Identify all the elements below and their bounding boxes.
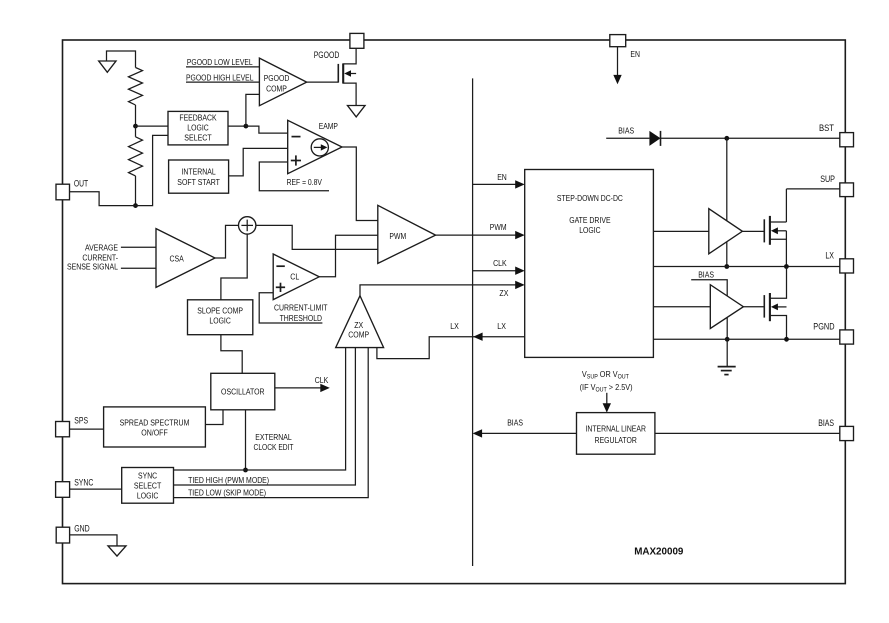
block FEEDBACK LOGIC SELECT — [168, 111, 228, 144]
label AVERAGE CURRENT- SENSE SIGNAL — [67, 243, 118, 272]
svg-text:BIAS: BIAS — [698, 270, 714, 280]
block STEP-DOWN DC-DC GATE DRIVE LOGIC — [525, 170, 654, 358]
svg-text:INTERNAL: INTERNAL — [182, 167, 216, 177]
wire ZX COMP output to gate drive logic — [360, 285, 516, 296]
wire CL output to PWM comparator — [319, 235, 378, 277]
port BST — [840, 133, 854, 147]
svg-text:ZX: ZX — [354, 320, 363, 330]
svg-text:THRESHOLD: THRESHOLD — [280, 313, 322, 323]
svg-text:OUT: OUT — [74, 179, 89, 189]
wire node OUT to FEEDBACK box lower input — [136, 135, 169, 205]
wire PGND rail — [653, 338, 839, 340]
node high driver LX — [724, 264, 729, 269]
summing junction — [239, 217, 256, 234]
port SYNC — [56, 482, 70, 498]
wire VSUP arrow into regulator — [606, 393, 608, 404]
node BST rail — [724, 136, 729, 141]
svg-text:REF = 0.8V: REF = 0.8V — [287, 177, 323, 187]
wire REF 0.8V to EAMP plus input — [259, 162, 329, 191]
svg-text:PGOOD: PGOOD — [264, 73, 290, 83]
svg-text:CLK: CLK — [493, 258, 507, 268]
block SPREAD SPECTRUM ON/OFF — [104, 407, 206, 447]
amplifier CSA — [156, 229, 215, 288]
svg-text:GND: GND — [74, 524, 90, 534]
transistor low-side MOSFET — [764, 267, 786, 340]
IC boundary box — [63, 40, 846, 584]
svg-text:SOFT START: SOFT START — [177, 177, 220, 187]
svg-text:LOGIC: LOGIC — [137, 491, 158, 501]
svg-text:BST: BST — [819, 123, 834, 133]
svg-text:LX: LX — [825, 250, 834, 260]
block OSCILLATOR — [211, 373, 275, 410]
wire node FB2 to PGOOD COMP input — [246, 94, 260, 126]
node PGND MOSFET source — [784, 337, 789, 342]
block INTERNAL LINEAR REGULATOR — [577, 413, 655, 455]
comparator ZX COMP — [336, 296, 384, 348]
svg-text:PGND: PGND — [813, 322, 835, 332]
wire TIED LOW to ZX COMP — [174, 348, 369, 498]
svg-text:TIED HIGH (PWM MODE): TIED HIGH (PWM MODE) — [188, 475, 269, 485]
svg-text:INTERNAL LINEAR: INTERNAL LINEAR — [585, 423, 646, 433]
wire OSCILLATOR to SPREAD SPECTRUM — [205, 410, 223, 425]
svg-text:PWM: PWM — [490, 222, 507, 232]
wire summing junction to SLOPE COMP LOGIC — [221, 234, 247, 300]
wire PGOOD COMP output to MOSFET gate — [307, 81, 339, 83]
svg-text:SUP: SUP — [820, 174, 835, 184]
wire PGOOD HIGH LEVEL input — [186, 81, 259, 83]
wire EN arrow down — [617, 47, 619, 76]
block INTERNAL SOFT START — [169, 160, 229, 193]
wire soft start to EAMP — [229, 148, 288, 176]
transistor high-side MOSFET — [764, 189, 786, 267]
wire BST rail to high-side driver — [726, 138, 728, 266]
ground (GND pin) — [108, 546, 126, 556]
comparator PGOOD COMP — [259, 58, 306, 106]
comparator PWM — [378, 205, 436, 263]
power ground symbol — [718, 367, 736, 375]
svg-text:COMP: COMP — [348, 330, 369, 340]
svg-text:GATE DRIVE: GATE DRIVE — [569, 215, 611, 225]
wire BIAS to diode — [606, 137, 649, 139]
wire sync external clock to ZX COMP — [174, 348, 346, 470]
wire node FB1 to FEEDBACK box upper input — [136, 125, 169, 127]
op-amp EAMP — [288, 120, 342, 173]
svg-text:LOGIC: LOGIC — [579, 225, 600, 235]
svg-text:SYNC: SYNC — [138, 471, 157, 481]
diode (BST bootstrap) — [649, 131, 660, 146]
svg-text:COMP: COMP — [266, 84, 287, 94]
svg-text:PGOOD LOW LEVEL: PGOOD LOW LEVEL — [187, 57, 253, 67]
wire diode to BST port — [661, 137, 840, 139]
svg-text:BIAS: BIAS — [618, 126, 634, 136]
wire CLK output arrow — [275, 387, 321, 389]
wire LX rail — [653, 266, 839, 268]
svg-text:CLK: CLK — [315, 375, 329, 385]
block SYNC SELECT LOGIC — [122, 468, 174, 504]
driver high-side — [709, 209, 743, 254]
svg-text:PGOOD HIGH LEVEL: PGOOD HIGH LEVEL — [186, 72, 254, 82]
port LX — [840, 259, 854, 273]
svg-text:SYNC: SYNC — [74, 478, 93, 488]
label CURRENT-LIMIT THRESHOLD — [274, 303, 328, 324]
wire OSCILLATOR to external clock node — [245, 410, 247, 470]
resistor (divider upper) — [129, 68, 143, 105]
svg-text:BIAS: BIAS — [818, 418, 834, 428]
port OUT — [56, 184, 70, 200]
wire node FB1 to resistor lower — [135, 126, 137, 137]
port GND — [56, 527, 69, 543]
ground (below PGOOD MOSFET) — [348, 106, 366, 117]
svg-text:STEP-DOWN DC-DC: STEP-DOWN DC-DC — [557, 193, 623, 203]
port SPS — [56, 422, 70, 437]
wire CSA output to summing junction — [215, 225, 239, 258]
wire SPS to SPREAD SPECTRUM — [70, 428, 104, 430]
wire PWM output to gate drive logic — [436, 234, 516, 236]
svg-text:OSCILLATOR: OSCILLATOR — [221, 386, 265, 396]
svg-text:BIAS: BIAS — [507, 418, 523, 428]
port PGND — [840, 330, 854, 344]
svg-text:CLOCK EDIT: CLOCK EDIT — [254, 442, 295, 452]
port BIAS — [840, 426, 854, 440]
wire SUP to high-side MOSFET drain — [786, 188, 839, 190]
wire summing junction to PWM comparator — [256, 225, 378, 249]
svg-text:LOGIC: LOGIC — [209, 316, 230, 326]
wire OUT port to node OUT — [70, 192, 136, 206]
svg-text:EXTERNAL: EXTERNAL — [255, 432, 292, 442]
wire CLK to gate drive logic — [473, 270, 516, 272]
svg-text:LX: LX — [497, 321, 506, 331]
resistor (divider lower) — [129, 137, 143, 176]
svg-text:SPREAD SPECTRUM: SPREAD SPECTRUM — [120, 417, 190, 427]
transistor PGOOD MOSFET — [338, 48, 356, 105]
wire PGND to power ground — [726, 339, 728, 366]
wire EAMP output to PWM comparator — [342, 147, 378, 221]
svg-text:AVERAGE: AVERAGE — [85, 243, 118, 253]
wire LX from gate drive logic to ZX COMP — [377, 337, 525, 359]
wire gate drive logic to high-side driver — [653, 230, 708, 232]
svg-text:CURRENT-LIMIT: CURRENT-LIMIT — [274, 303, 328, 313]
wire low-side driver to MOSFET gate — [743, 306, 764, 308]
wire TIED HIGH to ZX COMP — [174, 348, 356, 485]
svg-text:FEEDBACK: FEEDBACK — [179, 113, 217, 123]
wire high-side driver to MOSFET gate — [742, 230, 764, 232]
block SLOPE COMP LOGIC — [188, 300, 253, 335]
ground (top-left feedback divider) — [99, 51, 136, 72]
svg-text:EN: EN — [630, 49, 640, 59]
port PGOOD — [350, 33, 364, 48]
svg-text:TIED LOW (SKIP MODE): TIED LOW (SKIP MODE) — [188, 488, 266, 498]
wire BIAS port to regulator — [655, 432, 840, 434]
svg-text:CL: CL — [290, 272, 299, 282]
driver low-side — [710, 285, 743, 329]
wire FEEDBACK box to node FB2 — [228, 125, 246, 127]
node OUT junction — [133, 203, 138, 208]
svg-text:SPS: SPS — [74, 416, 88, 426]
node low driver PGND — [725, 337, 730, 342]
wire CSA input lower — [121, 267, 156, 269]
svg-text:ZX: ZX — [499, 288, 508, 298]
wire regulator BIAS output arrow — [482, 432, 577, 434]
svg-text:CSA: CSA — [169, 253, 184, 263]
svg-text:PGOOD: PGOOD — [314, 50, 340, 60]
wire CURRENT-LIMIT THRESHOLD to CL plus input — [259, 293, 322, 323]
node FB1 (divider midpoint) — [133, 124, 138, 129]
port EN — [610, 35, 626, 47]
svg-text:MAX20009: MAX20009 — [634, 545, 683, 557]
wire SLOPE COMP LOGIC to OSCILLATOR — [221, 335, 242, 374]
svg-text:EAMP: EAMP — [319, 121, 338, 131]
svg-text:SELECT: SELECT — [184, 133, 212, 143]
wire SYNC to SYNC SELECT LOGIC — [70, 488, 122, 490]
svg-text:ON/OFF: ON/OFF — [141, 427, 168, 437]
svg-text:REGULATOR: REGULATOR — [595, 435, 637, 445]
svg-text:SENSE SIGNAL: SENSE SIGNAL — [67, 262, 118, 272]
comparator CL — [273, 254, 319, 300]
svg-text:PWM: PWM — [389, 231, 406, 241]
svg-text:EN: EN — [497, 172, 507, 182]
wire CSA input upper — [121, 246, 156, 248]
wire GND to ground — [70, 535, 118, 546]
wire BIAS to low-side driver — [691, 280, 727, 340]
port SUP — [840, 183, 854, 197]
label EXTERNAL CLOCK EDIT — [254, 432, 295, 452]
svg-text:(IF VOUT > 2.5V): (IF VOUT > 2.5V) — [580, 382, 633, 394]
wire resistor to node FB1 — [135, 105, 137, 126]
node FB2 — [244, 124, 249, 129]
node LX MOSFET source — [784, 264, 789, 269]
wire resistor lower to node OUT — [135, 176, 137, 206]
node external clock — [243, 468, 248, 473]
svg-text:SLOPE COMP: SLOPE COMP — [197, 306, 243, 316]
wire node FB2 to EAMP inverting input — [246, 126, 288, 133]
wire gate drive logic to low-side driver — [653, 306, 710, 308]
svg-text:LOGIC: LOGIC — [187, 122, 208, 132]
wire PGOOD LOW LEVEL input — [186, 66, 259, 68]
svg-text:SELECT: SELECT — [134, 481, 162, 491]
wire EN to gate drive logic — [473, 183, 516, 185]
svg-text:LX: LX — [450, 321, 459, 331]
wire internal divider bus — [472, 78, 474, 566]
